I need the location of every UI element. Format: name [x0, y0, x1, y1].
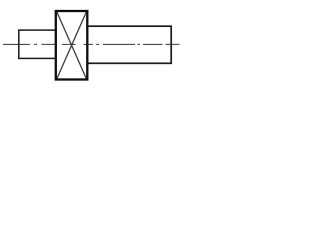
bearing block diagonal 2 — [57, 12, 86, 78]
bearing block (crossed box) — [56, 11, 88, 80]
right shaft — [87, 26, 171, 63]
bearing block diagonal 1 — [57, 12, 86, 78]
background — [0, 0, 182, 89]
left shaft stub — [19, 30, 56, 58]
centerline (dash-dot axis) — [3, 43, 180, 45]
